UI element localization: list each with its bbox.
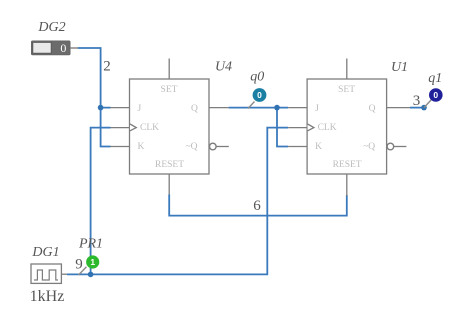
wire net 9: DG1 clock to CLK U4 and CLK U1 bbox=[67, 128, 288, 275]
svg-text:SET: SET bbox=[161, 85, 178, 95]
svg-text:Q: Q bbox=[191, 104, 198, 114]
svg-text:0: 0 bbox=[257, 90, 262, 100]
junction node q0 bbox=[274, 105, 280, 111]
svg-text:SET: SET bbox=[338, 85, 355, 95]
svg-text:PR1: PR1 bbox=[78, 237, 103, 252]
JK flip-flop U1 bbox=[288, 59, 410, 197]
wire net q0: Q of U4 to J,K of U1 bbox=[229, 108, 289, 147]
svg-text:6: 6 bbox=[253, 198, 261, 214]
svg-text:K: K bbox=[138, 142, 145, 152]
wire net 3: Q of U1 to probe q1 bbox=[410, 107, 424, 109]
svg-text:q1: q1 bbox=[428, 71, 442, 86]
svg-text:CLK: CLK bbox=[140, 123, 159, 133]
svg-text:~Q: ~Q bbox=[363, 142, 375, 152]
svg-text:1: 1 bbox=[90, 257, 95, 267]
svg-text:U4: U4 bbox=[215, 59, 232, 74]
wire net 6: RESET U4 to RESET U1 bbox=[169, 194, 347, 215]
svg-text:~Q: ~Q bbox=[186, 142, 198, 152]
wire end node net 3 bbox=[421, 105, 427, 111]
svg-text:1kHz: 1kHz bbox=[30, 288, 65, 305]
svg-text:J: J bbox=[138, 104, 142, 114]
probe q1 bbox=[424, 88, 443, 107]
svg-text:2: 2 bbox=[103, 59, 111, 75]
svg-text:3: 3 bbox=[413, 93, 421, 109]
svg-text:K: K bbox=[315, 142, 322, 152]
svg-text:9: 9 bbox=[75, 257, 83, 273]
wire net 2: DG2 to J,K of U4 bbox=[78, 48, 111, 147]
svg-text:DG1: DG1 bbox=[31, 245, 59, 260]
probe q0 bbox=[248, 88, 266, 108]
digital input DG2 bbox=[32, 41, 79, 55]
svg-text:RESET: RESET bbox=[333, 160, 362, 170]
svg-text:U1: U1 bbox=[391, 60, 408, 75]
svg-text:DG2: DG2 bbox=[37, 20, 65, 35]
svg-text:0: 0 bbox=[433, 90, 438, 100]
svg-text:CLK: CLK bbox=[318, 123, 337, 133]
svg-text:J: J bbox=[315, 104, 319, 114]
probe PR1 bbox=[79, 255, 100, 275]
svg-text:q0: q0 bbox=[250, 70, 264, 85]
svg-text:0: 0 bbox=[60, 41, 66, 55]
clock source DG1 bbox=[31, 264, 67, 283]
svg-text:Q: Q bbox=[369, 104, 376, 114]
JK flip-flop U4 bbox=[111, 59, 229, 195]
junction node net9 bbox=[88, 272, 94, 278]
svg-text:RESET: RESET bbox=[155, 160, 184, 170]
junction node net2 at J bbox=[98, 105, 104, 111]
